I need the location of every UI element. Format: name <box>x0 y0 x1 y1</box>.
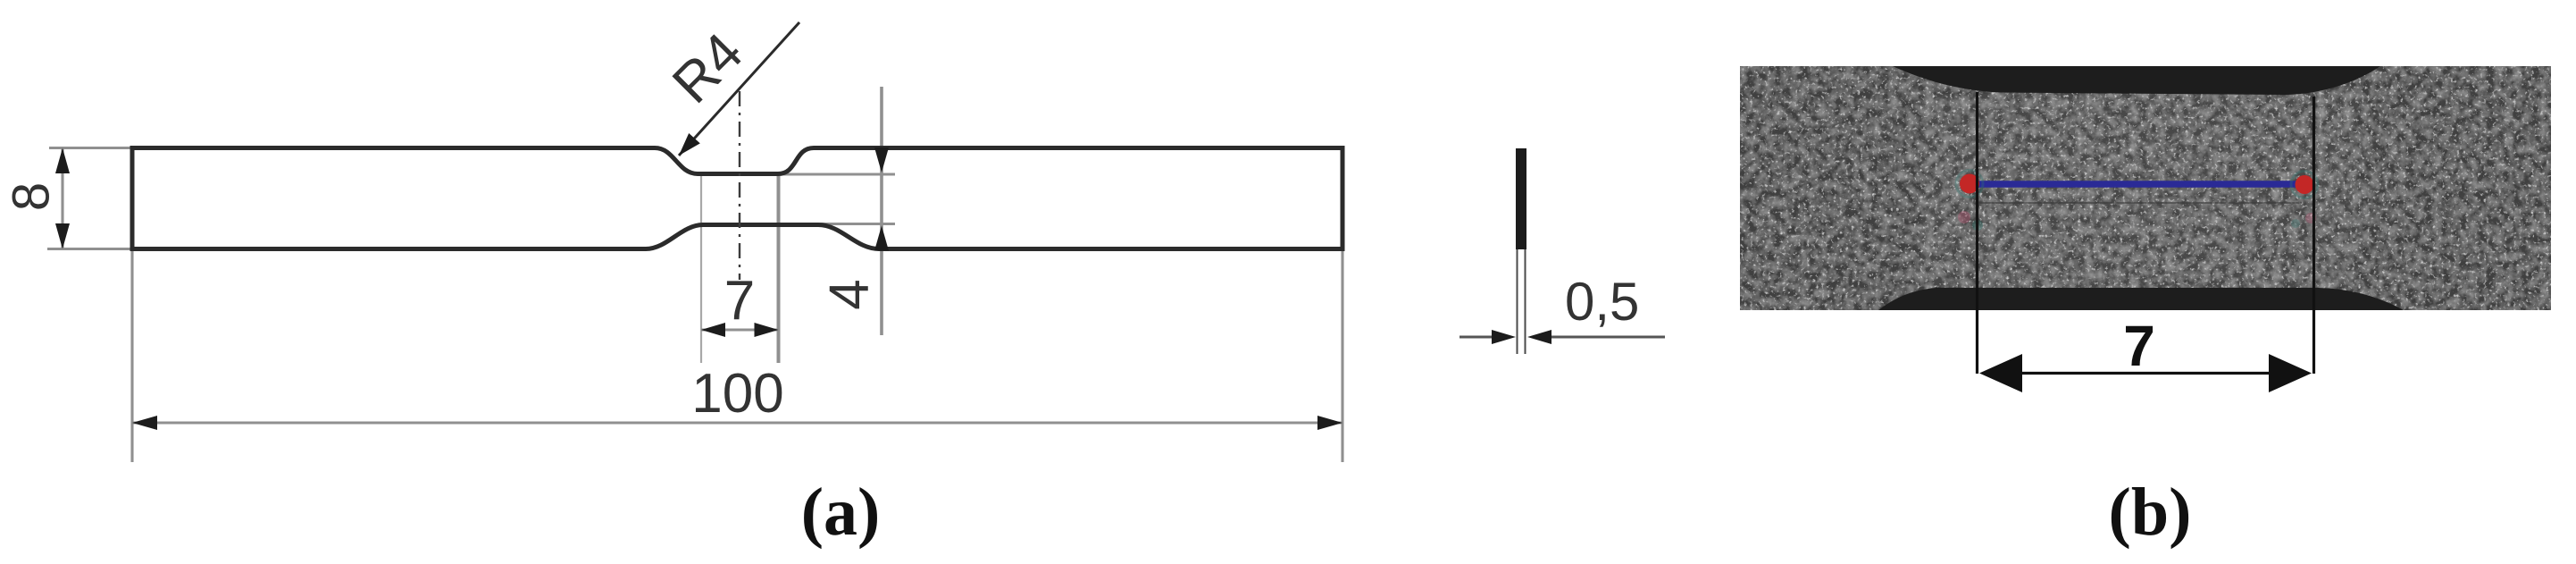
svg-text:100: 100 <box>691 363 783 425</box>
svg-text:4: 4 <box>819 279 881 309</box>
svg-text:(a): (a) <box>801 475 881 550</box>
svg-text:8: 8 <box>3 182 61 211</box>
svg-text:0,5: 0,5 <box>1565 272 1639 332</box>
svg-text:7: 7 <box>724 270 755 332</box>
svg-text:(b): (b) <box>2109 475 2192 550</box>
svg-text:7: 7 <box>2123 314 2155 378</box>
